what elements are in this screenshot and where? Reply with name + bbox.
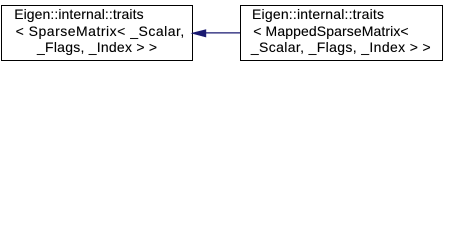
node B2 label line 2 [253, 23, 408, 40]
inheritance arrow: B2 derives from B1, midnightblue [0, 0, 449, 67]
node B2 label line 3 [251, 39, 431, 56]
node B1 label line 1 [14, 6, 143, 23]
node B2 label line 1 [252, 6, 384, 23]
node B1 label line 2 [16, 23, 185, 40]
node B1: class box Eigen::internal::traits< SparseMatrix > [1, 5, 193, 62]
node B1 label line 3 [37, 39, 157, 56]
arrow tail wire [205, 32, 240, 34]
arrow head [192, 30, 206, 37]
node B2: class box Eigen::internal::traits< MappedSparseMatrix > [240, 5, 443, 62]
